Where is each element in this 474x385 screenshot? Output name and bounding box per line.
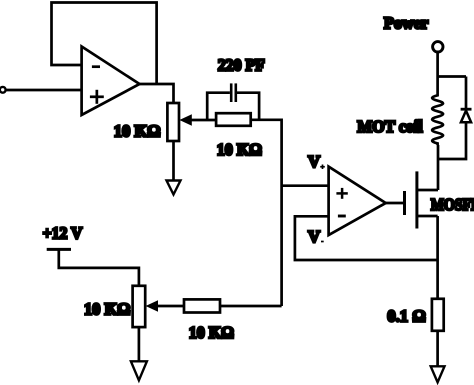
wire (59, 249, 139, 285)
wire (190, 119, 216, 122)
+12V supply bar (47, 248, 71, 251)
resistor R5 0.1 Ω (432, 299, 444, 331)
wire (52, 3, 157, 85)
transistor Q1 MOSFET (405, 171, 439, 228)
svg-text:MOT coil: MOT coil (357, 117, 423, 136)
wire (295, 216, 438, 260)
wire (251, 120, 282, 306)
op-amp U2 (329, 167, 386, 236)
power terminal (433, 42, 443, 52)
wire (465, 77, 468, 109)
wire (282, 184, 329, 187)
wire (172, 141, 175, 181)
input terminal (0, 87, 6, 93)
resistor R4 10 KΩ (184, 299, 220, 312)
svg-text:0.1 Ω: 0.1 Ω (387, 306, 425, 325)
potentiometer R3 10 KΩ (133, 286, 158, 327)
wire (436, 331, 439, 367)
svg-text:220 PF: 220 PF (218, 55, 265, 74)
resistor R2 10 KΩ (216, 113, 251, 126)
wire (138, 327, 141, 361)
capacitor C1 220 PF (231, 83, 236, 102)
wire (438, 75, 466, 78)
label V- (308, 227, 324, 246)
wire (156, 305, 184, 308)
ground (431, 366, 445, 382)
ground (131, 361, 147, 380)
svg-text:V: V (308, 227, 320, 246)
op-amp U1 (82, 47, 140, 116)
wire (438, 122, 466, 159)
wire (237, 93, 259, 120)
svg-text:Power: Power (384, 13, 429, 32)
wire (140, 84, 174, 103)
svg-text:10 KΩ: 10 KΩ (189, 323, 234, 342)
inductor L1 MOT coil (432, 52, 443, 145)
svg-text:10 KΩ: 10 KΩ (84, 300, 130, 319)
ground (167, 181, 181, 195)
wire (386, 202, 405, 205)
potentiometer R1 10 KΩ (167, 103, 191, 141)
label V+ (308, 152, 325, 171)
diode D1 (461, 109, 472, 122)
svg-text:+12 V: +12 V (43, 224, 83, 243)
svg-text:10 KΩ: 10 KΩ (114, 122, 161, 141)
svg-text:MOSFET: MOSFET (431, 195, 474, 214)
svg-text:V: V (308, 152, 320, 171)
wire (436, 216, 439, 299)
wire (220, 305, 282, 308)
wire (6, 89, 81, 92)
wire (437, 145, 440, 190)
wire (207, 93, 230, 120)
svg-text:10 KΩ: 10 KΩ (217, 140, 262, 159)
